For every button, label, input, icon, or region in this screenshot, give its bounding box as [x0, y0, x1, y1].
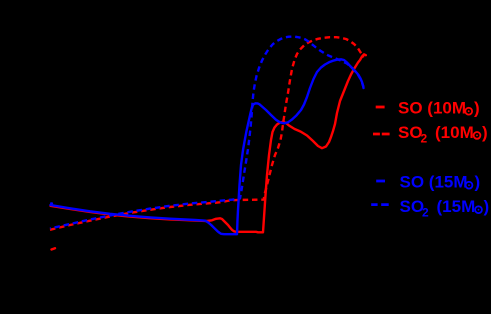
svg-text:): ): [474, 99, 480, 118]
svg-text:): ): [484, 197, 490, 216]
svg-text:): ): [482, 123, 488, 142]
svg-text:(15M: (15M: [437, 197, 476, 216]
curve SO2 (10Msun) red dashed: [50, 37, 364, 230]
legend text: SO (10Msun): [398, 99, 480, 118]
svg-text:2: 2: [421, 131, 428, 145]
svg-text:2: 2: [422, 206, 429, 220]
legend symbol: sun circle for SO (10Msun): [465, 108, 472, 115]
curve SO (15Msun) blue solid: start tip dot: [51, 202, 52, 204]
legend symbol: sun circle for SO2 (10Msun): [474, 132, 481, 139]
legend marker: red dashed: [373, 133, 390, 136]
curve SO (10Msun) red solid: [51, 54, 366, 232]
svg-text:SO: SO: [398, 123, 423, 142]
legend marker: blue dashed: [371, 203, 389, 206]
svg-text:SO: SO: [400, 197, 425, 216]
legend symbol: sun circle for SO2 (15Msun): [475, 206, 482, 213]
svg-text:): ): [475, 173, 481, 192]
legend text: SO (15Msun): [400, 173, 481, 192]
curve SO2 (10Msun) red dashed : isolated start dash: [52, 248, 56, 249]
legend marker: blue solid: [376, 180, 385, 183]
legend marker: red solid: [376, 106, 385, 109]
svg-text:SO (15M: SO (15M: [400, 173, 468, 192]
svg-text:(10M: (10M: [435, 123, 474, 142]
legend symbol: sun circle for SO (15Msun): [466, 182, 473, 189]
curve SO (15Msun) blue solid: [51, 59, 364, 234]
legend text: SO2 (15Msun): [400, 197, 490, 220]
curve SO2 (15Msun) blue dashed: [50, 37, 364, 229]
legend text: SO2 (10Msun): [398, 123, 488, 146]
svg-text:SO (10M: SO (10M: [398, 99, 466, 118]
